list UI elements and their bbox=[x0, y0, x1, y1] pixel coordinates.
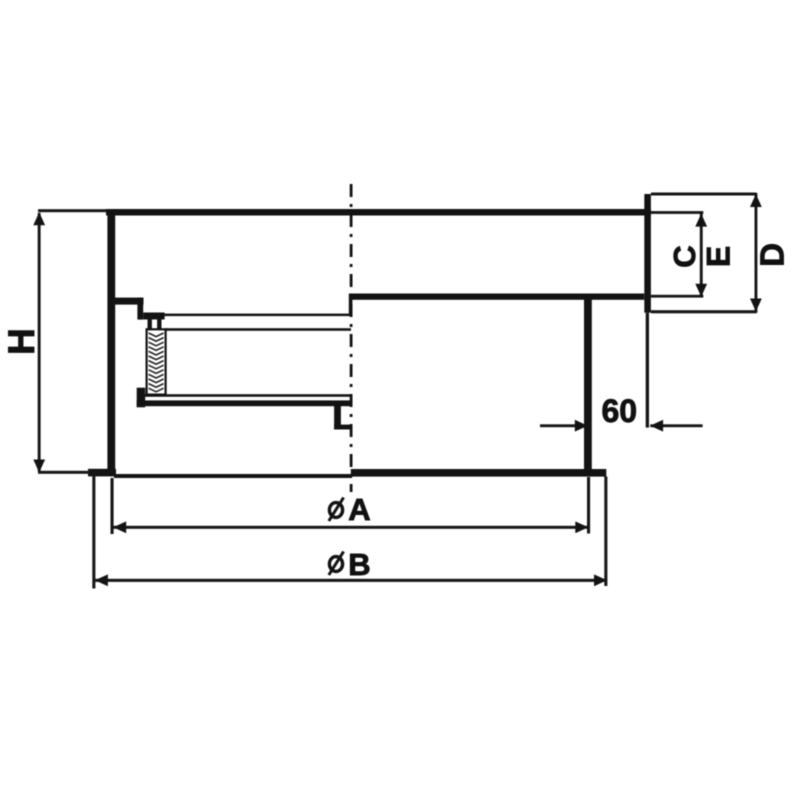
svg-text:60: 60 bbox=[602, 393, 638, 429]
svg-text:E: E bbox=[701, 246, 737, 267]
svg-text:D: D bbox=[754, 243, 791, 267]
svg-text:H: H bbox=[1, 328, 42, 355]
svg-text:A: A bbox=[348, 492, 370, 527]
svg-text:B: B bbox=[348, 547, 370, 582]
svg-text:C: C bbox=[667, 245, 702, 267]
